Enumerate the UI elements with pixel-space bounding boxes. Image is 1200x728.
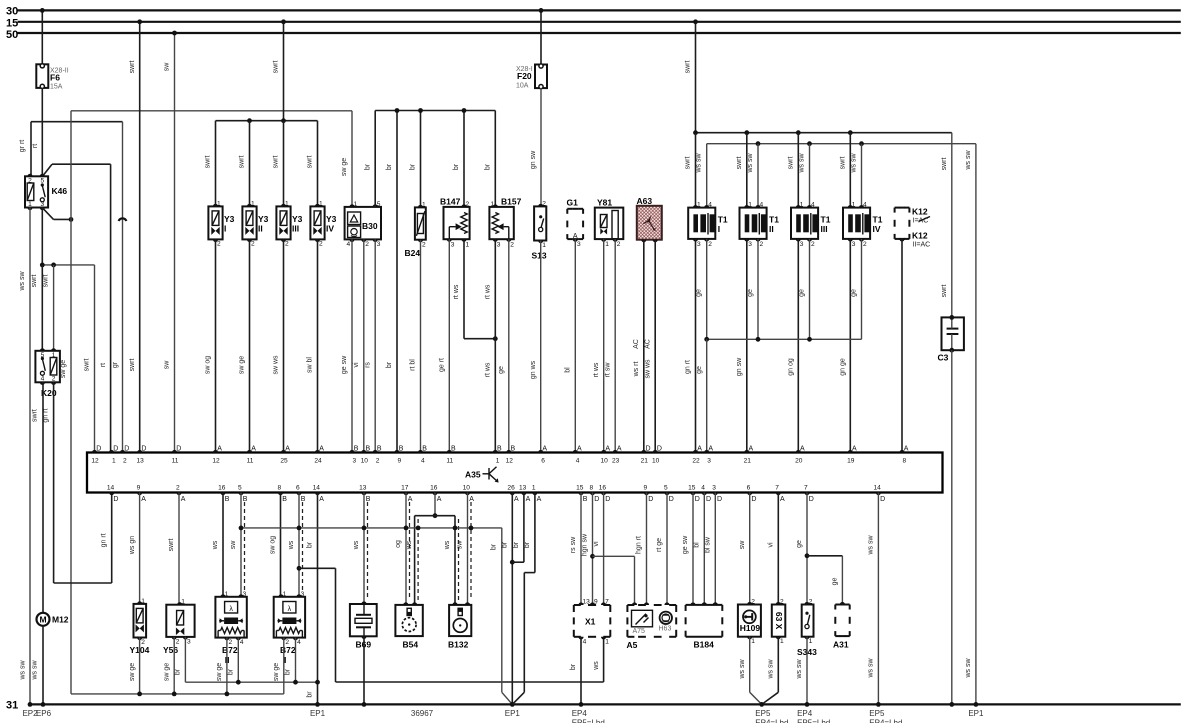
svg-text:ws sw: ws sw [747,153,754,174]
svg-text:B24: B24 [405,248,421,258]
wire B30 pin2 to A35 B10 [363,239,365,452]
svg-text:D: D [646,446,651,453]
wire T1 I pin3 to A35 [695,239,697,453]
svg-text:bl sw: bl sw [705,536,712,553]
svg-text:swrt: swrt [839,157,846,170]
svg-text:swrt: swrt [32,409,39,422]
svg-text:D: D [751,496,756,503]
svg-text:4: 4 [421,458,425,465]
svg-text:3: 3 [852,241,856,248]
svg-text:4: 4 [583,639,587,646]
svg-text:2: 2 [285,241,289,248]
svg-text:C3: C3 [938,353,949,363]
A35 top pin A25 [281,450,286,453]
svg-text:T1: T1 [873,215,883,225]
ignition coil T1 IV [843,208,870,239]
svg-text:5: 5 [40,178,44,185]
svg-text:D: D [880,496,885,503]
svg-text:A: A [141,496,146,503]
wire rt to A35 pin D1 [110,164,112,452]
wire K46 pin3 down [41,208,43,265]
wire to T1 IV pin4 [861,144,863,208]
svg-text:D: D [717,496,722,503]
switch S343 [802,605,814,637]
swge bottom bus [71,693,284,695]
wire A35-1 br jog to EP1 [534,493,536,573]
wire T1 IV pin3 to A35 [849,239,851,453]
A35 bottom pin 14A [315,493,320,496]
arrow mark on gr wire [119,218,127,221]
svg-text:rt ws: rt ws [485,362,492,377]
A35 top pin A23 [613,450,618,453]
svg-text:1: 1 [542,242,546,249]
svg-text:ge: ge [696,366,703,374]
sensor B184 (dashed sides) [686,604,723,606]
svg-text:24: 24 [314,458,322,465]
wire B72I pin4 to br bus [295,638,297,683]
svg-text:2: 2 [176,485,180,492]
wire swrt to K20 pin1 [53,265,55,351]
A35 bottom pin 15B [578,493,583,496]
A35 top pin B2 [373,450,378,453]
svg-text:S13: S13 [532,251,547,261]
svg-text:rs: rs [364,362,371,368]
wire S13 pin1 to A35 A6 [540,241,542,453]
svg-text:4: 4 [708,202,712,209]
svg-text:5: 5 [41,352,45,359]
svg-text:sw ws: sw ws [644,359,651,379]
A35 top pin D21 [641,450,646,453]
svg-text:B: B [301,496,306,503]
control unit A35 [87,453,943,493]
wire Y3 IV pin2 to A35 [317,239,319,452]
svg-text:3: 3 [712,485,716,492]
svg-text:br: br [490,543,497,550]
svg-text:3: 3 [377,241,381,248]
wire br to B157 pin1 [494,111,496,207]
svg-text:swrt: swrt [272,61,279,74]
Y3 feed link bus [216,120,318,122]
svg-text:EP4=Lbd: EP4=Lbd [869,719,902,724]
svg-text:rt: rt [100,363,107,367]
svg-text:2: 2 [123,458,127,465]
svg-text:3: 3 [40,201,44,208]
svg-text:20: 20 [795,458,803,465]
svg-text:D: D [648,496,653,503]
bus 50 [18,32,1181,34]
svg-text:5: 5 [664,485,668,492]
svg-text:1: 1 [852,202,856,209]
wire link swrt [42,264,94,266]
A35 bottom pin 6D [747,493,752,496]
svg-text:I: I [718,224,720,234]
svg-text:D: D [706,496,711,503]
svg-text:3: 3 [243,591,247,598]
svg-text:swrt: swrt [941,285,948,298]
svg-text:1: 1 [751,638,755,645]
lambda sensor B72 I [274,597,305,638]
svg-text:ws sw: ws sw [19,271,26,292]
svg-text:EP5: EP5 [869,709,885,718]
svg-text:swrt: swrt [84,359,91,372]
svg-text:III: III [821,224,828,234]
svg-text:26: 26 [507,485,515,492]
wire T1 I pin2 to ge bus [706,239,708,339]
svg-text:gn ge: gn ge [839,358,846,376]
svg-text:D: D [113,446,118,453]
svg-text:1: 1 [251,200,255,207]
svg-text:gn rt: gn rt [101,533,108,547]
svg-text:swrt: swrt [273,156,280,169]
svg-text:1: 1 [496,458,500,465]
svg-text:ws: ws [593,661,600,671]
wire A35-14 br to EP1 [317,493,319,705]
svg-text:sw: sw [739,540,746,550]
svg-text:gn og: gn og [787,358,794,376]
svg-text:br: br [386,163,393,170]
svg-text:ge: ge [799,289,806,297]
wire A35-6 ws to B72I pin3 [298,493,300,597]
svg-text:sw ge: sw ge [239,356,246,374]
svg-text:λ: λ [229,606,233,613]
br bottom bus [185,681,317,683]
wire B157 pin3 to A35 B1 [494,239,496,452]
svg-text:14: 14 [874,485,882,492]
svg-text:vi: vi [768,542,775,548]
A35 bottom pin 15D [690,493,695,496]
svg-text:bl: bl [694,542,701,548]
svg-text:1: 1 [491,201,495,208]
svg-text:swrt: swrt [205,156,212,169]
solenoid valve Y3 IV [310,206,324,239]
svg-text:br: br [524,541,531,548]
svg-text:D: D [113,496,118,503]
svg-text:13: 13 [519,485,527,492]
svg-text:B: B [366,446,371,453]
svg-text:swrt: swrt [239,156,246,169]
svg-text:ws gn: ws gn [129,536,136,555]
wire A35-8D hgn-sw to X1-9 [592,493,594,606]
wire B30 pin4 to A35 B3 [351,239,353,452]
svg-text:rt ws: rt ws [593,362,600,377]
svg-text:B: B [377,446,382,453]
wire A35-17 og to B54 [405,493,407,605]
svg-text:A63: A63 [637,196,653,206]
svg-text:1: 1 [52,352,56,359]
svg-text:15: 15 [576,485,584,492]
svg-text:1: 1 [466,241,470,248]
svg-text:1: 1 [697,202,701,209]
svg-text:1: 1 [748,202,752,209]
svg-text:23: 23 [612,458,620,465]
shield bus [241,527,502,529]
svg-text:EP6: EP6 [36,709,52,718]
A35 top pin D13 [137,450,142,453]
svg-text:swrt: swrt [307,156,314,169]
svg-text:ge rt: ge rt [439,358,446,372]
svg-text:H63: H63 [659,626,672,633]
wire A35-13A br joins [523,493,525,563]
wire to T1 II pin4 [757,144,759,208]
shield B54 right [417,519,419,600]
svg-text:gn sw: gn sw [736,357,743,376]
svg-text:2: 2 [809,599,813,606]
wire Y3 III pin2 to A35 [283,239,285,452]
wire X63 pin1 to EP5 [777,637,779,693]
svg-text:21: 21 [641,458,649,465]
svg-text:rt: rt [32,144,39,148]
A35 top pin A20 [796,450,801,453]
svg-text:sw ge: sw ge [60,360,67,378]
svg-text:gr rt: gr rt [19,140,26,153]
bus 15 [18,21,1181,23]
shield B72I [302,502,304,593]
svg-text:swrt: swrt [787,157,794,170]
wire B147 pin1 rt-ws jog [463,239,465,339]
A35 top pin A6 [538,450,543,453]
svg-text:2: 2 [251,241,255,248]
svg-text:B: B [422,446,427,453]
wire A35-9 ws-gn to Y104 [139,493,141,604]
svg-text:1: 1 [141,598,145,605]
wire bus30 to F6 [41,10,43,64]
svg-text:AC: AC [644,339,651,349]
svg-text:B147: B147 [440,197,461,207]
wire A35-4D bl to B184 [703,493,705,605]
svg-text:9: 9 [643,485,647,492]
wire br to B30 pin5 [374,111,376,207]
fuse F6 [36,64,48,88]
svg-text:3: 3 [451,241,455,248]
svg-text:D: D [695,496,700,503]
wire T1 IV pin2 to ge bus [861,239,863,339]
horn H109 [738,605,761,637]
wire br to A35 pin B9 [396,111,398,453]
svg-text:2: 2 [422,241,426,248]
svg-text:swrt: swrt [129,359,136,372]
svg-text:ws: ws [444,540,451,550]
svg-text:2: 2 [52,375,56,382]
svg-text:22: 22 [692,458,700,465]
ge bus [707,338,862,340]
svg-text:10: 10 [652,458,660,465]
svg-text:gn sw: gn sw [530,150,537,169]
svg-text:9: 9 [398,458,402,465]
wire A35-15 rs-sw to X1-13 [580,493,582,606]
valve Y81 [595,208,624,240]
wire B24 pin2 to A35 B4 [420,240,422,453]
svg-text:4: 4 [297,639,301,646]
A35 bottom pin 4D [702,493,707,496]
svg-text:D: D [124,446,129,453]
svg-text:swrt: swrt [736,157,743,170]
svg-text:swrt: swrt [42,275,49,288]
svg-text:A: A [217,446,222,453]
sensor B147 [444,207,470,239]
wire B157 pin2 to A35 B12 [508,239,510,452]
wire A35-10 sw to B132 [467,493,469,605]
svg-text:sw: sw [164,62,171,72]
svg-text:swrt: swrt [31,275,38,288]
svg-text:15: 15 [688,485,696,492]
svg-text:EP1: EP1 [505,709,521,718]
svg-text:ws sw: ws sw [32,660,39,681]
ignition coil T1 II [740,208,767,239]
A35 top pin A3 [704,450,709,453]
svg-text:10: 10 [601,458,609,465]
svg-text:A: A [605,446,610,453]
svg-text:25: 25 [280,458,288,465]
wire C3 to bus 31 [951,350,953,704]
ignition coil T1 I [688,208,715,239]
svg-text:A: A [577,446,582,453]
svg-text:br: br [410,163,417,170]
svg-text:F6: F6 [50,73,60,83]
A35 top pin B4 [418,450,423,453]
svg-text:B184: B184 [694,640,715,650]
svg-text:br: br [485,163,492,170]
svg-text:B: B [354,446,359,453]
svg-text:3: 3 [187,638,191,645]
svg-text:A: A [780,496,785,503]
wire K46 pin3 diagonal to swge net [43,208,54,219]
svg-text:br: br [453,163,460,170]
A35 top pin A22 [693,450,698,453]
svg-text:ge sw: ge sw [341,355,348,374]
wire A63 pin1 to A35 D21 [643,240,645,453]
wire A35-16A ws split to B54/B132 [434,493,436,516]
svg-text:sw ge: sw ge [216,663,223,681]
A35 top pin A4 [573,450,578,453]
svg-text:A: A [800,446,805,453]
svg-text:B: B [225,496,230,503]
fuse F20 [535,65,547,89]
A35 top pin A8 [899,450,904,453]
wire A63 pin2 to A35 D10 [654,240,656,453]
svg-text:1: 1 [780,638,784,645]
wire T1 II pin3 to A35 [746,239,748,453]
svg-text:sw ge: sw ge [273,663,280,681]
A35 top pin A11 [247,450,252,453]
svg-text:A: A [408,496,413,503]
svg-text:ge: ge [696,289,703,297]
svg-text:A: A [749,446,754,453]
svg-text:15A: 15A [50,84,63,91]
wire K20 pin2 gn-rt loop to A35 pin D14 [53,382,55,583]
solenoid valve Y3 I [208,206,222,239]
svg-text:F20: F20 [517,71,532,81]
svg-text:EP4: EP4 [797,709,813,718]
svg-text:λ: λ [288,606,292,613]
svg-text:sw ge: sw ge [129,663,136,681]
svg-text:og: og [395,540,402,548]
A35 bottom pin 8D [590,493,595,496]
svg-text:3: 3 [697,241,701,248]
branch ws to X1 pin1 [297,566,302,571]
svg-text:X1: X1 [585,617,596,627]
svg-text:EP4: EP4 [572,709,588,718]
svg-text:D: D [657,446,662,453]
svg-text:11: 11 [172,458,179,465]
svg-text:A: A [708,446,713,453]
wire H109 pin1 to EP5 [749,637,751,693]
svg-text:II: II [769,224,774,234]
svg-text:ws sw: ws sw [965,150,972,171]
bus 30 [18,9,1181,11]
svg-text:A35: A35 [465,470,481,480]
A35 bottom pin 7D [804,493,809,496]
wire A35-3D bl-sw to B184 [714,493,716,605]
svg-text:br: br [285,668,292,675]
wire A35-2 swrt to Y56 [178,493,180,605]
wire to Y3 II pin1 [249,121,251,207]
wire gr-rt K46 pin2 top link [30,122,32,177]
svg-text:II=AC: II=AC [913,242,931,249]
A35 bottom pin 7A [776,493,781,496]
svg-text:A75: A75 [633,628,646,635]
A35 bottom pin 10A [465,493,470,496]
svg-text:D: D [141,446,146,453]
wire to T1 III pin1 [797,133,799,208]
svg-text:12: 12 [91,458,99,465]
wire to T1 IV pin1 [849,133,851,208]
svg-text:7: 7 [775,485,779,492]
svg-text:sw: sw [230,540,237,550]
sensor B30 [345,207,381,240]
svg-text:rt ge: rt ge [656,538,663,552]
svg-text:rt ws: rt ws [485,284,492,299]
svg-text:4: 4 [576,458,580,465]
solenoid valve Y3 III [276,206,290,239]
svg-text:I: I [224,224,226,234]
junction T1 II feed [744,130,749,135]
svg-text:B30: B30 [362,221,378,231]
svg-text:3: 3 [800,241,804,248]
svg-text:30: 30 [6,6,18,18]
svg-text:1: 1 [605,639,609,646]
svg-text:AC: AC [633,339,640,349]
svg-text:3: 3 [577,241,581,248]
svg-text:2: 2 [708,241,712,248]
wire to Y3 I pin1 [215,121,217,207]
wire gn-sw F20 to S13 [540,88,542,206]
A35 top pin A12 [213,450,218,453]
svg-text:3: 3 [301,591,305,598]
svg-text:B: B [399,446,404,453]
svg-text:1: 1 [532,485,536,492]
svg-text:8: 8 [277,485,281,492]
svg-text:5: 5 [238,485,242,492]
svg-text:16: 16 [430,485,438,492]
branch ge to A31 [805,553,810,558]
svg-text:gn rt: gn rt [685,360,692,374]
svg-text:ws sw: ws sw [696,153,703,174]
svg-text:ws sw: ws sw [796,659,803,680]
A35 bottom pin 9A [137,493,142,496]
svg-text:EP5: EP5 [755,709,771,718]
wire swge vertical [70,111,72,694]
svg-text:Y3: Y3 [326,214,337,224]
A35 bottom pin 13B [361,493,366,496]
wire swrt to K20 pin5 [41,265,43,351]
svg-text:3: 3 [707,458,711,465]
svg-text:ws: ws [353,540,360,550]
wire Y104 pin2 to swge bus [139,638,141,694]
wire Y3 I pin2 to A35 [215,239,217,452]
svg-text:vi: vi [353,362,360,368]
svg-text:ws sw: ws sw [768,659,775,680]
svg-text:A: A [852,446,857,453]
